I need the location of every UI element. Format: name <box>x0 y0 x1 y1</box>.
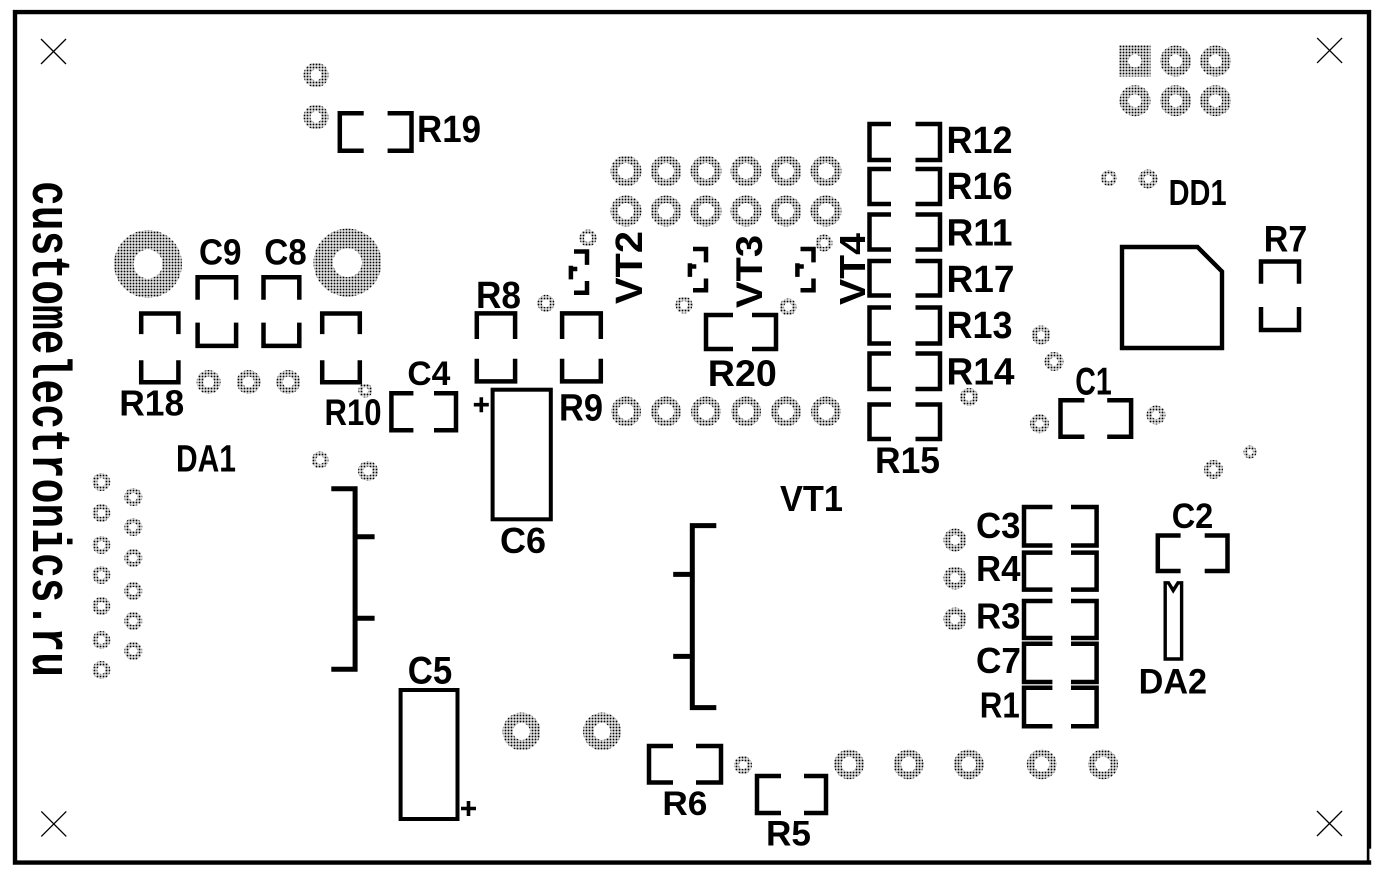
svg-text:C3: C3 <box>976 505 1021 546</box>
svg-text:R14: R14 <box>947 352 1015 394</box>
svg-text:R8: R8 <box>476 275 521 317</box>
svg-text:R10: R10 <box>325 391 382 433</box>
svg-text:R3: R3 <box>976 595 1021 636</box>
svg-text:R15: R15 <box>875 440 940 481</box>
svg-text:C2: C2 <box>1172 497 1214 536</box>
svg-text:R11: R11 <box>947 213 1013 255</box>
svg-text:R19: R19 <box>417 109 481 151</box>
svg-text:R18: R18 <box>119 383 184 424</box>
svg-text:R7: R7 <box>1264 218 1308 259</box>
svg-text:DA2: DA2 <box>1139 663 1208 702</box>
svg-text:customelectronics.ru: customelectronics.ru <box>16 181 79 677</box>
svg-text:C4: C4 <box>407 355 450 393</box>
svg-text:R5: R5 <box>766 815 811 854</box>
svg-text:C6: C6 <box>500 520 546 561</box>
svg-text:VT1: VT1 <box>780 478 843 519</box>
svg-text:VT2: VT2 <box>609 231 651 304</box>
svg-text:C7: C7 <box>976 640 1021 681</box>
svg-text:C9: C9 <box>199 232 242 273</box>
svg-text:C8: C8 <box>264 232 307 273</box>
svg-text:R20: R20 <box>708 352 777 394</box>
svg-text:C5: C5 <box>408 649 453 692</box>
svg-text:R12: R12 <box>947 120 1013 162</box>
svg-text:R13: R13 <box>947 305 1013 347</box>
svg-text:R1: R1 <box>980 684 1020 725</box>
svg-text:R9: R9 <box>559 388 603 430</box>
svg-text:R17: R17 <box>947 259 1015 301</box>
svg-text:R16: R16 <box>947 166 1013 208</box>
svg-text:DD1: DD1 <box>1169 172 1227 213</box>
svg-text:DA1: DA1 <box>176 439 236 481</box>
svg-text:R6: R6 <box>662 785 707 823</box>
svg-text:VT3: VT3 <box>729 235 770 308</box>
svg-text:R4: R4 <box>976 548 1021 589</box>
svg-text:VT4: VT4 <box>832 233 873 305</box>
svg-text:C1: C1 <box>1075 361 1112 404</box>
